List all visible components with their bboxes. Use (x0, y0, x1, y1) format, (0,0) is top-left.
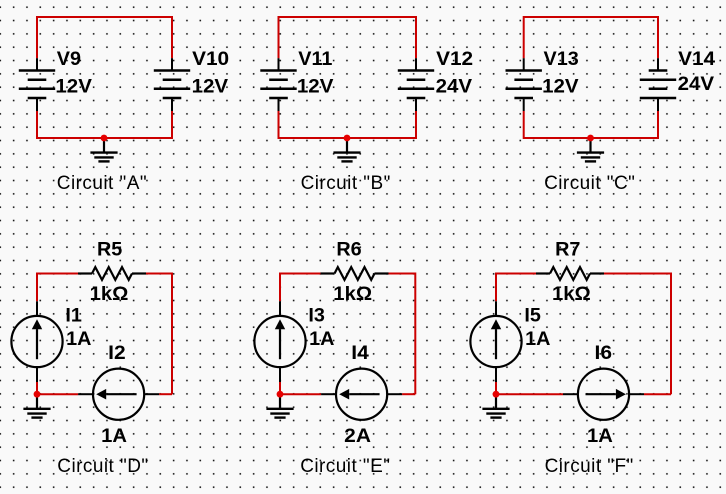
svg-text:12V: 12V (55, 76, 92, 98)
svg-text:Circuit "A": Circuit "A" (57, 173, 147, 194)
svg-text:12V: 12V (297, 76, 334, 98)
svg-text:V13: V13 (544, 48, 579, 70)
svg-text:I3: I3 (308, 305, 325, 327)
svg-text:V14: V14 (678, 48, 715, 70)
svg-text:V9: V9 (57, 48, 81, 70)
svg-text:Circuit "C": Circuit "C" (544, 173, 635, 194)
svg-text:Circuit "F": Circuit "F" (545, 456, 634, 477)
svg-text:1A: 1A (101, 425, 127, 447)
svg-text:24V: 24V (678, 73, 715, 95)
svg-text:1kΩ: 1kΩ (90, 283, 129, 305)
svg-text:I4: I4 (351, 342, 369, 364)
svg-text:24V: 24V (436, 76, 473, 98)
svg-text:R6: R6 (336, 239, 361, 261)
svg-text:1A: 1A (525, 328, 550, 350)
svg-text:Circuit "E": Circuit "E" (300, 456, 390, 477)
svg-text:I2: I2 (108, 342, 126, 364)
svg-text:I5: I5 (524, 305, 541, 327)
svg-text:2A: 2A (344, 425, 371, 447)
svg-text:I6: I6 (595, 342, 613, 364)
svg-text:Circuit "D": Circuit "D" (57, 456, 148, 477)
svg-text:V10: V10 (192, 48, 229, 70)
svg-text:1A: 1A (66, 328, 91, 350)
svg-text:V11: V11 (298, 48, 332, 70)
svg-text:12V: 12V (542, 76, 579, 98)
svg-text:1kΩ: 1kΩ (552, 283, 591, 305)
svg-text:V12: V12 (436, 48, 473, 70)
svg-text:Circuit "B": Circuit "B" (301, 173, 391, 194)
svg-text:I1: I1 (65, 305, 82, 327)
svg-text:R7: R7 (555, 239, 580, 261)
svg-text:12V: 12V (192, 76, 229, 98)
svg-text:R5: R5 (97, 239, 122, 261)
svg-text:1kΩ: 1kΩ (333, 283, 372, 305)
svg-text:1A: 1A (309, 328, 334, 350)
svg-text:1A: 1A (587, 425, 613, 447)
